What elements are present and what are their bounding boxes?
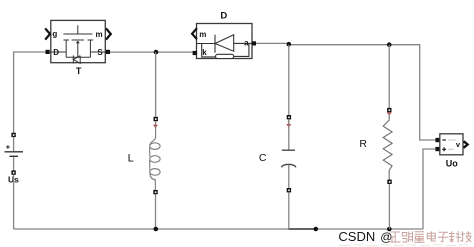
mosfet symbol: bottom bar: [66, 56, 90, 58]
output chevron m (points left): [192, 28, 197, 39]
current arrow (red): [288, 120, 290, 124]
wire: bottom rail: [14, 228, 423, 230]
diode symbol: cathode bar: [214, 35, 216, 53]
diode block D: [192, 10, 256, 58]
output chevron: [464, 141, 468, 148]
watermark CSDN text: [338, 229, 392, 244]
wire to port: [388, 170, 390, 180]
block body: [197, 24, 253, 59]
snubber branch: right connector: [234, 43, 249, 56]
junction node L/rail: [154, 227, 159, 232]
coil: [150, 121, 156, 145]
current arrow (red): [387, 112, 392, 115]
input chevron g: [45, 28, 50, 39]
svg-text:D: D: [53, 48, 59, 57]
port square k: [193, 51, 197, 55]
inductor L: [128, 117, 160, 194]
wire: C node to corner and down to Uo -: [289, 45, 436, 140]
zigzag: [383, 120, 392, 170]
port square Us -: [11, 170, 15, 174]
resistor R: [359, 108, 392, 184]
dc voltage source Us: [5, 133, 24, 185]
port square C top: [287, 115, 291, 119]
char zi: [438, 232, 449, 242]
port square a: [252, 41, 256, 45]
port square D: [46, 50, 50, 54]
capacitor C: [259, 115, 296, 192]
mosfet symbol: gate line: [63, 33, 92, 35]
diode symbol: output line: [234, 42, 252, 44]
snubber resistor body: [216, 54, 234, 58]
short plate: [9, 155, 18, 157]
svg-text:g: g: [52, 30, 57, 39]
wire: R bottom to rail: [388, 184, 390, 229]
watermark second row cropped at bottom edge: [339, 245, 468, 246]
char ji: [460, 231, 471, 242]
junction node above R: [387, 42, 392, 47]
port square L top: [154, 117, 158, 121]
wire: bottom rail up to Uo +: [423, 149, 435, 229]
minus sign: [442, 139, 445, 141]
curved plate: [281, 164, 296, 167]
char neng: [402, 232, 412, 243]
diode symbol: anode line: [197, 43, 215, 45]
char liang: [414, 232, 425, 242]
wire: T.D left to Us top: [14, 52, 46, 133]
wire below plate: [288, 165, 290, 188]
faint meter marks: [448, 140, 456, 149]
port square S: [106, 50, 110, 54]
mosfet symbol: drain stub: [77, 25, 79, 34]
output chevron m: [106, 28, 111, 39]
mosfet symbol: right leg: [89, 40, 91, 57]
block body: [51, 20, 106, 62]
svg-text:Uo: Uo: [446, 158, 458, 168]
svg-text:C: C: [259, 152, 267, 164]
svg-text:D: D: [220, 10, 227, 21]
wire: node to C top: [288, 45, 290, 115]
svg-text:L: L: [128, 152, 134, 164]
svg-text:S: S: [97, 48, 103, 57]
port square C bottom: [287, 188, 291, 192]
port square R bottom: [387, 180, 391, 184]
mosfet symbol: body diode: [72, 56, 74, 64]
wire to zigzag: [388, 112, 390, 120]
wire: L bottom to rail: [155, 194, 157, 229]
wire: overlap dark segment C to junction: [288, 228, 315, 230]
svg-text:m: m: [96, 30, 103, 39]
wire: T.S to D.k: [110, 51, 193, 53]
wire: Us bottom to bottom rail: [13, 175, 15, 229]
port square R top: [387, 108, 391, 112]
watermark chinese glyph strokes: [390, 231, 472, 242]
char dian: [427, 231, 436, 241]
snubber branch: k connector: [202, 44, 216, 57]
port square -: [435, 138, 439, 142]
svg-text:R: R: [359, 138, 367, 150]
mosfet symbol: D lead: [50, 51, 66, 53]
block body: [440, 134, 463, 155]
char ke: [449, 231, 461, 242]
wire: node to L top: [155, 52, 157, 117]
wire: [13, 137, 15, 151]
diode symbol: triangle: [215, 35, 234, 52]
top plate: [282, 149, 295, 151]
char zheng: [390, 232, 401, 242]
junction node mid rail: [314, 227, 319, 232]
port square Us +: [11, 133, 15, 137]
junction node above L: [154, 50, 159, 55]
wire: C bottom to rail: [288, 192, 290, 229]
mosfet symbol: left leg: [65, 40, 67, 57]
mosfet symbol: S lead: [90, 51, 105, 53]
port square +: [435, 147, 439, 151]
wire: D.a to C node: [256, 42, 289, 44]
mosfet symbol: channel bars: [63, 39, 93, 41]
svg-text:T: T: [76, 66, 82, 76]
wire to plate: [288, 119, 290, 149]
mosfet symbol: substrate arrow: [77, 41, 79, 57]
mosfet block T: [45, 20, 111, 76]
svg-text:CSDN: CSDN: [338, 229, 375, 244]
long plate: [5, 151, 24, 153]
wire: [13, 157, 15, 171]
junction node above C: [287, 42, 292, 47]
plus sign: [6, 145, 10, 149]
current arrow (red): [155, 121, 157, 125]
wire: node to R top: [388, 45, 390, 108]
junction node R/rail: [387, 227, 392, 232]
svg-text:a: a: [244, 39, 249, 48]
plus sign: [442, 147, 446, 151]
svg-text:m: m: [199, 30, 206, 39]
port square L bottom: [153, 190, 157, 194]
voltage measurement block Uo: [435, 134, 467, 169]
svg-text:k: k: [202, 48, 207, 57]
